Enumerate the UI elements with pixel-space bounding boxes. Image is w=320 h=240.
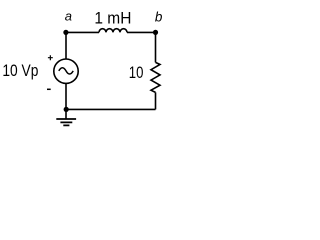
svg-text:a: a [65,9,72,24]
svg-text:10: 10 [129,64,144,82]
wire bottom (junction to right corner) [66,108,156,110]
source plus sign [48,55,53,60]
wire left vertical (node a to source top) [65,32,67,59]
ground stub wire [65,109,67,119]
resistor R1 [151,62,160,92]
ground junction dot [64,107,69,112]
source V1 circle [54,59,78,83]
wire top-right (inductor to node b) [127,31,156,33]
svg-text:10 Vp: 10 Vp [2,62,38,80]
ground symbol [56,119,76,125]
svg-text:1 mH: 1 mH [94,10,131,28]
node a junction dot [63,30,68,35]
wire top-left (node a to inductor) [66,31,99,33]
wire right vertical upper (resistor top to node b) [155,32,157,62]
svg-text:b: b [155,9,163,24]
source minus sign [47,88,51,90]
source V1 sine wave [59,68,73,74]
wire left vertical (source bottom to ground junction) [65,83,67,109]
node b junction dot [153,30,158,35]
inductor L1 [99,29,127,33]
wire right vertical lower (corner to resistor bottom) [155,92,157,109]
